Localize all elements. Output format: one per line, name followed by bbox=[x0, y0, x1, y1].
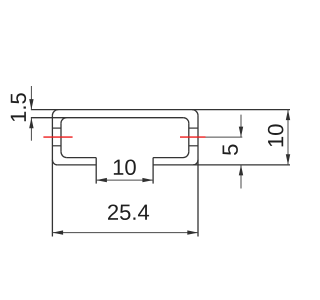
profile outer top-left fillet bbox=[52, 110, 58, 116]
profile outer bottom-left fillet bbox=[52, 160, 57, 165]
cavity inner bottom edge right of slot bbox=[153, 157, 183, 159]
centerline black extension toward 5-dim bbox=[206, 136, 243, 138]
profile outer bottom edge right of slot + extension line right bbox=[153, 164, 290, 166]
dim text 5 (rotated) bbox=[223, 145, 238, 155]
dim text 10 height (rotated) bbox=[268, 124, 284, 146]
profile outer top edge with extension lines both sides bbox=[31, 109, 290, 111]
dim text 25.4 bbox=[108, 204, 149, 220]
dim 1.5 lower arrow bbox=[29, 118, 33, 129]
profile outer right wall + 25.4 extension bbox=[197, 116, 199, 237]
dim 10 height line bbox=[287, 110, 289, 165]
dim 5 lower leader bbox=[240, 165, 242, 189]
dim 25.4 line bbox=[52, 232, 198, 234]
right hole red centerline bbox=[180, 136, 206, 138]
cavity inner top-right fillet bbox=[183, 118, 189, 124]
cavity inner right wall bbox=[188, 123, 190, 152]
cavity inner bottom-left fillet bbox=[61, 152, 67, 158]
left wall hole upper edge bbox=[52, 127, 61, 129]
right wall hole upper edge bbox=[189, 127, 198, 129]
dim text 1.5 (rotated) bbox=[11, 93, 26, 121]
cavity inner bottom edge left of slot bbox=[67, 157, 96, 159]
dim 5 upper arrow bbox=[239, 127, 243, 138]
slot right edge + extension below bbox=[152, 158, 154, 184]
dim 25.4 right arrow bbox=[187, 230, 198, 234]
dim 1.5 upper arrow bbox=[29, 99, 33, 110]
profile outer left wall + 25.4 extension bbox=[51, 116, 53, 237]
dim text 10 slot bbox=[114, 159, 136, 175]
dim 10 slot line bbox=[96, 179, 153, 181]
profile outer bottom-right fillet bbox=[193, 160, 198, 165]
dim 1.5 upper leader bbox=[30, 86, 32, 110]
cavity inner bottom-right fillet bbox=[183, 152, 189, 158]
dim 5 upper leader bbox=[240, 115, 242, 138]
dim 25.4 left arrow bbox=[52, 230, 63, 234]
dim 10 height bottom arrow bbox=[286, 154, 290, 165]
cavity inner top-left fillet bbox=[61, 118, 67, 124]
cavity inner left wall bbox=[60, 123, 62, 152]
left hole red centerline bbox=[43, 136, 72, 138]
dim 10 slot left arrow bbox=[96, 178, 107, 182]
slot left edge + extension below bbox=[95, 158, 97, 184]
dim 10 height top arrow bbox=[286, 110, 290, 121]
profile outer bottom edge left of slot bbox=[57, 164, 96, 166]
right wall hole lower edge bbox=[189, 145, 198, 147]
profile outer top-right fillet bbox=[192, 110, 198, 116]
left wall hole lower edge bbox=[52, 145, 61, 147]
dim 10 slot right arrow bbox=[142, 178, 153, 182]
cavity inner top edge with 1.5 extension line to the left bbox=[31, 117, 183, 119]
dim 5 lower arrow bbox=[239, 165, 243, 176]
dim 1.5 lower leader bbox=[30, 118, 32, 141]
